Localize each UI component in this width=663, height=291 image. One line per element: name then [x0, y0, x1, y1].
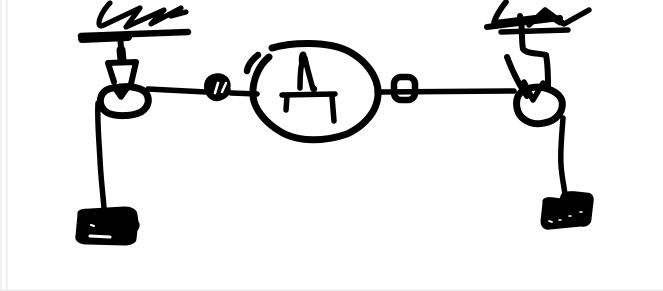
hanger link left — [120, 36, 122, 58]
pulley P2 — [517, 87, 563, 123]
symbol: table left leg — [286, 96, 287, 110]
ceiling line left — [81, 32, 188, 36]
generator blob — [253, 43, 378, 139]
mass M2 — [542, 193, 592, 229]
knot bead — [206, 76, 228, 100]
symbol: lambda on table — [300, 56, 313, 89]
symbol: table top — [282, 94, 335, 95]
symbol: table right leg — [332, 96, 334, 121]
pulley P1 axle v — [114, 87, 128, 97]
rope right — [561, 118, 565, 196]
mass M1 — [77, 208, 138, 244]
ceiling hatch left — [99, 3, 186, 27]
hanger hook right — [520, 16, 548, 86]
square component — [394, 77, 415, 100]
generator blob stroke tail — [247, 55, 258, 71]
pulley P2 axle V — [524, 82, 543, 100]
pulley P1 — [100, 87, 148, 116]
rope left — [98, 103, 104, 208]
bottom faint line — [0, 290, 663, 291]
wire knot to blob — [231, 93, 257, 94]
wire pulley P1 to knot — [148, 89, 206, 92]
wire blob to pulley P2 — [377, 91, 514, 92]
left margin line — [0, 0, 2, 291]
ceiling hatch right — [494, 2, 550, 23]
